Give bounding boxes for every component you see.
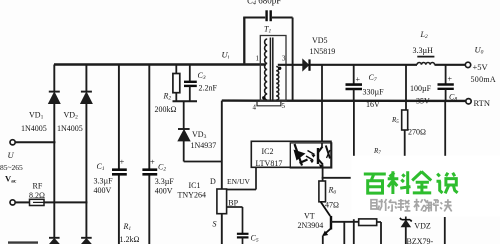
resistor R7 horizontal [359,219,381,244]
diode VD2 [81,92,92,104]
svg-text:1N5819: 1N5819 [310,47,336,56]
svg-text:BZX79-: BZX79- [407,237,434,244]
svg-text:VD1: VD1 [29,110,44,120]
svg-text:C8: C8 [449,92,457,102]
wire R5 branch [405,65,407,110]
svg-text:VD5: VD5 [312,36,328,45]
svg-text:2N3904: 2N3904 [298,221,324,230]
svg-text:+: + [356,75,361,84]
capacitor C4 snubber loop [243,10,292,100]
svg-text:Vac: Vac [5,174,17,185]
svg-text:400V: 400V [155,186,173,195]
wire RTN node down [444,101,446,158]
wire base branch 2 [353,219,355,244]
svg-text:270Ω: 270Ω [408,127,426,136]
wire clamp join [173,101,198,128]
terminal RTN [466,99,471,104]
capacitor C5 BP [237,234,249,244]
svg-text:3: 3 [282,55,286,63]
svg-text:R2: R2 [163,92,172,102]
svg-text:R6: R6 [328,186,337,196]
glyph shuo [437,173,458,194]
IC U1 TNY264 body [217,189,227,214]
wire source S [221,214,223,244]
glyph bai [364,174,386,193]
svg-text:8.2Ω: 8.2Ω [29,191,45,200]
transformer phase dot primary [262,96,265,99]
svg-text:1N4005: 1N4005 [21,124,47,133]
svg-text:+: + [150,157,155,167]
diode VD1 [49,92,60,104]
svg-text:TNY264: TNY264 [178,190,206,199]
svg-text:5: 5 [282,102,286,110]
svg-text:C1: C1 [97,162,105,172]
wire output rail [310,64,466,66]
wire top DC bus [54,63,266,66]
svg-text:VD3: VD3 [192,130,207,140]
wire RTN lower vertical [444,217,446,244]
svg-text:R5: R5 [391,116,399,125]
wire AC input top [15,141,55,143]
svg-text:400V: 400V [94,186,112,195]
wire C2 branch [148,65,150,244]
svg-text:U0: U0 [475,44,484,55]
zener diode VDZ [400,217,412,244]
svg-text:IC1: IC1 [189,181,201,190]
svg-text:VDZ: VDZ [414,222,431,231]
capacitor C1 [112,170,127,175]
inductor L2 [417,57,435,65]
svg-text:IC2: IC2 [262,147,274,156]
resistor R2 [173,65,180,102]
svg-text:R1: R1 [123,222,132,232]
svg-text:RF: RF [33,181,43,190]
svg-text:330µF: 330µF [363,87,385,96]
svg-text:BP: BP [228,198,238,207]
svg-text:35V: 35V [416,96,430,105]
svg-text:R7: R7 [373,147,381,156]
svg-text:1N4937: 1N4937 [191,141,217,150]
svg-text:C4 680pF: C4 680pF [247,0,281,6]
svg-text:D: D [210,177,216,186]
svg-text:C7: C7 [369,73,377,83]
glyph jie [426,200,439,212]
svg-text:VD2: VD2 [64,110,79,120]
svg-text:S: S [213,220,217,229]
wire feedback tap [322,177,351,179]
wire secondary to VD5 [278,64,303,66]
svg-text:200kΩ: 200kΩ [155,105,177,114]
svg-text:LTV817: LTV817 [256,159,283,168]
svg-text:3.3µH: 3.3µH [413,46,434,55]
watermark text gray subtitle [370,199,451,212]
glyph quan [412,172,431,193]
diode bridge lower-right [81,238,92,244]
transformer T1 primary winding [265,39,268,100]
svg-text:47Ω: 47Ω [325,200,339,209]
svg-text:3.3µF: 3.3µF [94,176,114,185]
transformer T1 secondary winding [276,67,279,101]
wire bottom rail drain/RTN [222,99,466,102]
diode bridge lower-left [49,238,60,244]
svg-text:100µF: 100µF [410,84,432,93]
wire AC input bottom [15,201,87,203]
svg-text:+: + [448,75,453,84]
svg-text:RTN: RTN [474,98,491,108]
svg-text:L2: L2 [420,30,428,40]
svg-text:16V: 16V [366,100,380,109]
wire VT base [331,221,359,223]
diode VD5 [303,59,310,70]
transformer T1 box [260,36,286,101]
wire bottom stub [8,241,38,243]
svg-text:4: 4 [253,104,257,112]
wire opto output down [322,168,324,181]
svg-text:T1: T1 [264,25,271,35]
capacitor C7 [346,65,363,101]
capacitor C2 [142,170,157,175]
svg-text:C2: C2 [158,163,166,173]
svg-text:2.2nF: 2.2nF [199,84,218,93]
terminal +5V [465,62,470,67]
svg-text:85~265: 85~265 [0,163,23,172]
optocoupler IC2 LED and transistor symbol [294,143,331,168]
transformer pin bracket 4-5 [257,101,281,106]
svg-text:C5: C5 [251,234,259,244]
wire bridge left leg [53,65,55,238]
glyph song [414,199,427,211]
glyph ke [388,171,411,194]
terminal input bottom [10,200,15,205]
glyph qing [397,199,410,211]
glyph jue [440,199,452,211]
svg-text:+: + [120,157,125,167]
wire C1 branch [118,65,120,244]
transformer phase dot secondary [278,67,281,70]
resistor R5 270ohm [402,110,408,157]
svg-text:1: 1 [256,55,260,63]
fuse resistor RF [30,199,45,205]
wire drain [221,101,223,189]
watermark text green baike quanshuo [364,171,458,194]
svg-text:Ui: Ui [222,50,230,61]
wire opto LED feed [321,65,323,142]
svg-text:1.2kΩ: 1.2kΩ [120,235,140,244]
glyph ni [384,199,396,211]
svg-text:C3: C3 [198,71,206,81]
wire BP [227,207,243,233]
terminal input top [10,140,15,145]
transformer T1 core [270,38,272,102]
resistor R6 47ohm [319,181,326,202]
wire clamp to drain [184,161,222,163]
svg-text:+5V: +5V [473,62,489,72]
capacitor C8 [438,65,454,101]
svg-text:1N4005: 1N4005 [57,124,83,133]
wire C7 node down [353,101,355,159]
capacitor C3 [184,65,197,102]
wire EN/UV [227,167,256,189]
svg-text:EN/UV: EN/UV [227,177,250,186]
glyph zhu [370,199,383,211]
wire bridge right leg [85,65,87,238]
svg-text:3.3µF: 3.3µF [155,177,175,186]
diode VD3 [178,129,190,162]
svg-text:U: U [8,150,15,160]
svg-text:VT: VT [304,212,315,221]
wire base branch 1 [343,222,345,244]
transistor VT 2N3904 [321,202,331,244]
optocoupler IC2 box [251,141,331,168]
watermark background [352,156,500,216]
svg-text:500mA: 500mA [471,75,497,84]
